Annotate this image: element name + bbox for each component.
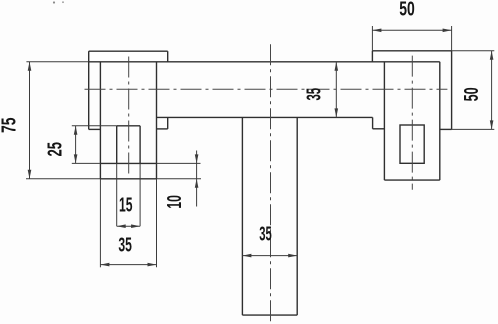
- left leg slot-bottom step edge: [100, 162, 156, 164]
- left slot right edge: [139, 126, 141, 164]
- dim35L left extension line: [99, 179, 101, 267]
- right leg centerline: [411, 56, 413, 190]
- svg-text:10: 10: [164, 195, 186, 209]
- dim50T right extension line: [451, 26, 453, 51]
- dim50R bottom arrow: [490, 120, 494, 129]
- svg-text:15: 15: [119, 194, 133, 216]
- dim50R top arrow: [490, 51, 494, 60]
- dim15 right arrow: [131, 224, 140, 228]
- right plate bottom-left step: [373, 128, 385, 130]
- dim50R top extension line: [452, 50, 495, 52]
- right plate left edge lower: [372, 117, 374, 128]
- dim75 top arrow: [28, 62, 32, 71]
- dim50R dimension line: [491, 51, 493, 130]
- dim35L left arrow: [100, 263, 109, 267]
- dim35L right arrow: [148, 263, 157, 267]
- dim75 bottom arrow: [28, 170, 32, 179]
- dim25 dimension line: [75, 126, 77, 164]
- left plate right edge upper: [167, 51, 169, 62]
- middle block left edge: [241, 117, 243, 315]
- dim35B top arrow: [335, 62, 339, 71]
- dim75 bottom extension line: [26, 178, 100, 180]
- left slot top edge: [117, 125, 140, 127]
- dim15 left extension line: [116, 163, 118, 226]
- dim15 right extension line: [139, 163, 141, 226]
- left leg right edge: [156, 62, 158, 179]
- dim35M right arrow: [288, 254, 297, 258]
- middle block right edge: [296, 117, 298, 315]
- dim15 left arrow: [117, 224, 126, 228]
- svg-text:35: 35: [118, 235, 132, 257]
- dim50T dimension line: [372, 29, 451, 31]
- dim75 top extension line: [26, 61, 88, 63]
- left leg centerline: [128, 57, 130, 175]
- dim35L dimension line: [100, 264, 156, 266]
- left plate top edge: [89, 50, 168, 52]
- scan speck 2: [62, 1, 64, 3]
- wire bar top edge: [89, 61, 440, 63]
- svg-text:75: 75: [0, 118, 20, 134]
- right leg slot: [400, 125, 424, 163]
- left leg bottom edge: [100, 178, 156, 180]
- right plate top edge: [372, 50, 451, 52]
- dim50T right arrow: [443, 29, 452, 33]
- dim35B dimension line: [335, 62, 337, 118]
- svg-text:25: 25: [44, 142, 66, 157]
- dim15 dimension line: [117, 225, 140, 227]
- dim10 lower arrow: [195, 179, 199, 188]
- left slot left edge: [116, 126, 118, 164]
- left leg left edge: [99, 62, 101, 179]
- right plate right edge: [451, 51, 453, 130]
- dim35M left arrow: [242, 254, 251, 258]
- dim25 bottom arrow: [74, 154, 78, 163]
- dim10 dimension line: [196, 151, 198, 207]
- right leg left edge: [383, 62, 385, 180]
- dim35B bottom arrow: [335, 108, 339, 117]
- middle block bottom edge: [242, 314, 297, 316]
- wire bar bottom edge: [157, 116, 373, 118]
- dim35M dimension line: [242, 255, 297, 257]
- dim50T left arrow: [372, 29, 381, 33]
- right plate bottom-right edge: [440, 128, 452, 130]
- scan speck 1: [53, 1, 55, 3]
- left plate bottom-left step: [89, 128, 101, 130]
- left plate right edge lower: [167, 117, 169, 128]
- dim50T left extension line: [371, 26, 373, 51]
- svg-text:50: 50: [399, 0, 415, 20]
- bar horizontal centerline: [85, 88, 448, 90]
- right leg bottom edge: [384, 179, 439, 181]
- svg-text:35: 35: [259, 224, 272, 246]
- dim25 top arrow: [74, 126, 78, 135]
- dim35L right extension line: [156, 179, 158, 267]
- dim25 bottom extension line: [72, 162, 101, 164]
- dim25/dim10 extension line: [157, 162, 201, 164]
- right leg right edge: [439, 62, 441, 180]
- right plate left edge upper: [371, 51, 373, 62]
- dim10 upper arrow: [195, 154, 199, 163]
- left plate bottom-right step: [157, 128, 168, 130]
- dim25 top extension line: [72, 125, 117, 127]
- svg-text:50: 50: [461, 87, 483, 101]
- dim75 dimension line: [29, 62, 31, 179]
- left plate left edge: [88, 51, 90, 129]
- middle block centerline: [270, 44, 272, 322]
- dim75/dim10 extension line right: [157, 178, 202, 180]
- svg-text:35: 35: [304, 88, 326, 101]
- dim50R bottom extension line: [452, 128, 495, 130]
